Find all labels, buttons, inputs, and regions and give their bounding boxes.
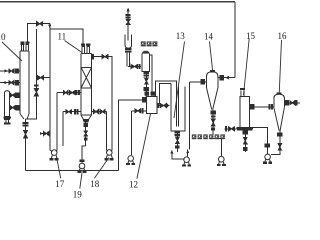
C11 left line 2 [63,110,81,146]
svg-text:19: 19 [73,190,83,200]
C11 bottom outlet [82,120,89,163]
wire top header line [0,1,235,3]
wire feed line to C11 top [50,24,83,44]
wire K13 outlet to pump P13 [170,150,183,159]
burette flow meter [125,34,131,66]
C15 bottom-right offtake to pump P15 [253,128,270,154]
leader line 15 [244,39,250,96]
flow meter line top arrow [126,8,130,35]
wire S14 overhead to header [218,76,235,80]
feed line 1 into C10 [0,69,20,73]
C15 top nozzle [240,89,244,97]
bottom manifold [25,170,118,172]
svg-text:14: 14 [204,32,214,42]
leader line 17 [57,158,61,179]
manifold right riser to E12 [118,100,146,171]
S14 bottoms line [211,110,221,156]
V1 bottom stack to E12 nozzle A [144,72,148,97]
C10 bottom outlet stack [23,119,28,171]
column C10 body [20,51,29,119]
column C11 body [81,54,92,120]
wire P14 discharge to column C15 [224,127,236,131]
riser from E12 right line up-over to crystallizer K13 [160,83,171,104]
C11 left line 1 [56,91,81,152]
wire right header drop [234,2,236,78]
crystallizer K13 vessel [171,83,185,131]
packing X box in C11 [81,67,92,88]
tank line 2 to C10 [10,106,21,110]
wire overhead riser from C10 [27,24,50,42]
wire recirc loop bottom [36,77,49,79]
nozzle C10 top-right [26,42,29,51]
C11 right line 2 [92,110,108,152]
vessel V1 [142,51,150,72]
K13 inner tube second line [178,87,180,127]
leader line 16 [279,40,281,94]
leader line 14 [210,42,213,71]
nozzle C11 top-right [87,44,90,54]
E12 top-right vapor line over to K13 center [155,81,176,126]
wire recirc loop left leg [35,29,37,78]
riser pump P13 to cyclone S14 inlet [186,82,189,157]
svg-text:17: 17 [55,179,64,189]
C11 right top line to downcomer [92,55,113,152]
leader line 13 [174,42,185,119]
S16 overhead line exits right [284,101,300,105]
pump P19 [78,160,86,172]
pump P13 [183,157,191,166]
leader line 10 [2,42,22,61]
label liuliangji (flow meter) [141,41,158,46]
svg-text:11: 11 [58,32,67,42]
pump P14 [217,156,225,165]
svg-text:15: 15 [246,31,256,41]
C15 right line to cyclone S16 [250,105,274,109]
svg-text:16: 16 [278,31,288,41]
pump P15 [264,154,272,163]
flange pair at E12 left inlet [142,98,145,102]
K13 bottom outlet stack [175,131,179,152]
nozzle C10 top-left [21,42,24,51]
svg-text:12: 12 [129,180,138,190]
nozzle C11 top-left [82,44,85,54]
wire loop leg down to C10 bottom [25,78,36,119]
pump P17 [50,150,58,160]
leader line 11 [65,41,83,53]
wire V1 top to E12 nozzle B [150,55,153,91]
svg-text:18: 18 [90,179,100,189]
label chengpin qingyanghuali (product LiOH) [192,134,225,139]
cyclone S16 [274,93,285,131]
wire recirc loop right leg down to pump P17 [49,29,51,150]
svg-text:13: 13 [176,31,186,41]
tank line 1 to C10 [10,93,21,97]
small tank T1 left [4,91,11,125]
arrow down at junction [48,25,51,30]
valve vertical on loop leg [34,89,38,96]
feed line 2 into C10 [0,80,20,84]
cyclone S14 inlet line [189,79,206,84]
leader line 19 [80,173,82,189]
valve on overhead line [37,22,43,26]
wire burette to V1 [128,64,141,68]
C15 bottom drain stack [243,130,247,152]
pump P12 [127,156,135,165]
column C15 body [240,97,250,128]
E12 right line with valve [157,103,170,107]
E12 lower-left line to pump P12 [132,109,147,156]
C15 bottom flange plate [237,127,253,130]
leader line 18 [94,158,109,179]
S16 bottoms to pump P15 [271,131,282,155]
evaporator E12 body [146,97,157,114]
cyclone S14 [207,70,218,109]
svg-text:10: 10 [0,32,6,42]
valve on loop bottom [38,76,44,80]
E12 nozzle stubs [145,92,155,97]
stub with valve on downcomer [40,132,50,136]
pump P18 [105,150,113,160]
leader line 12 [137,114,151,179]
